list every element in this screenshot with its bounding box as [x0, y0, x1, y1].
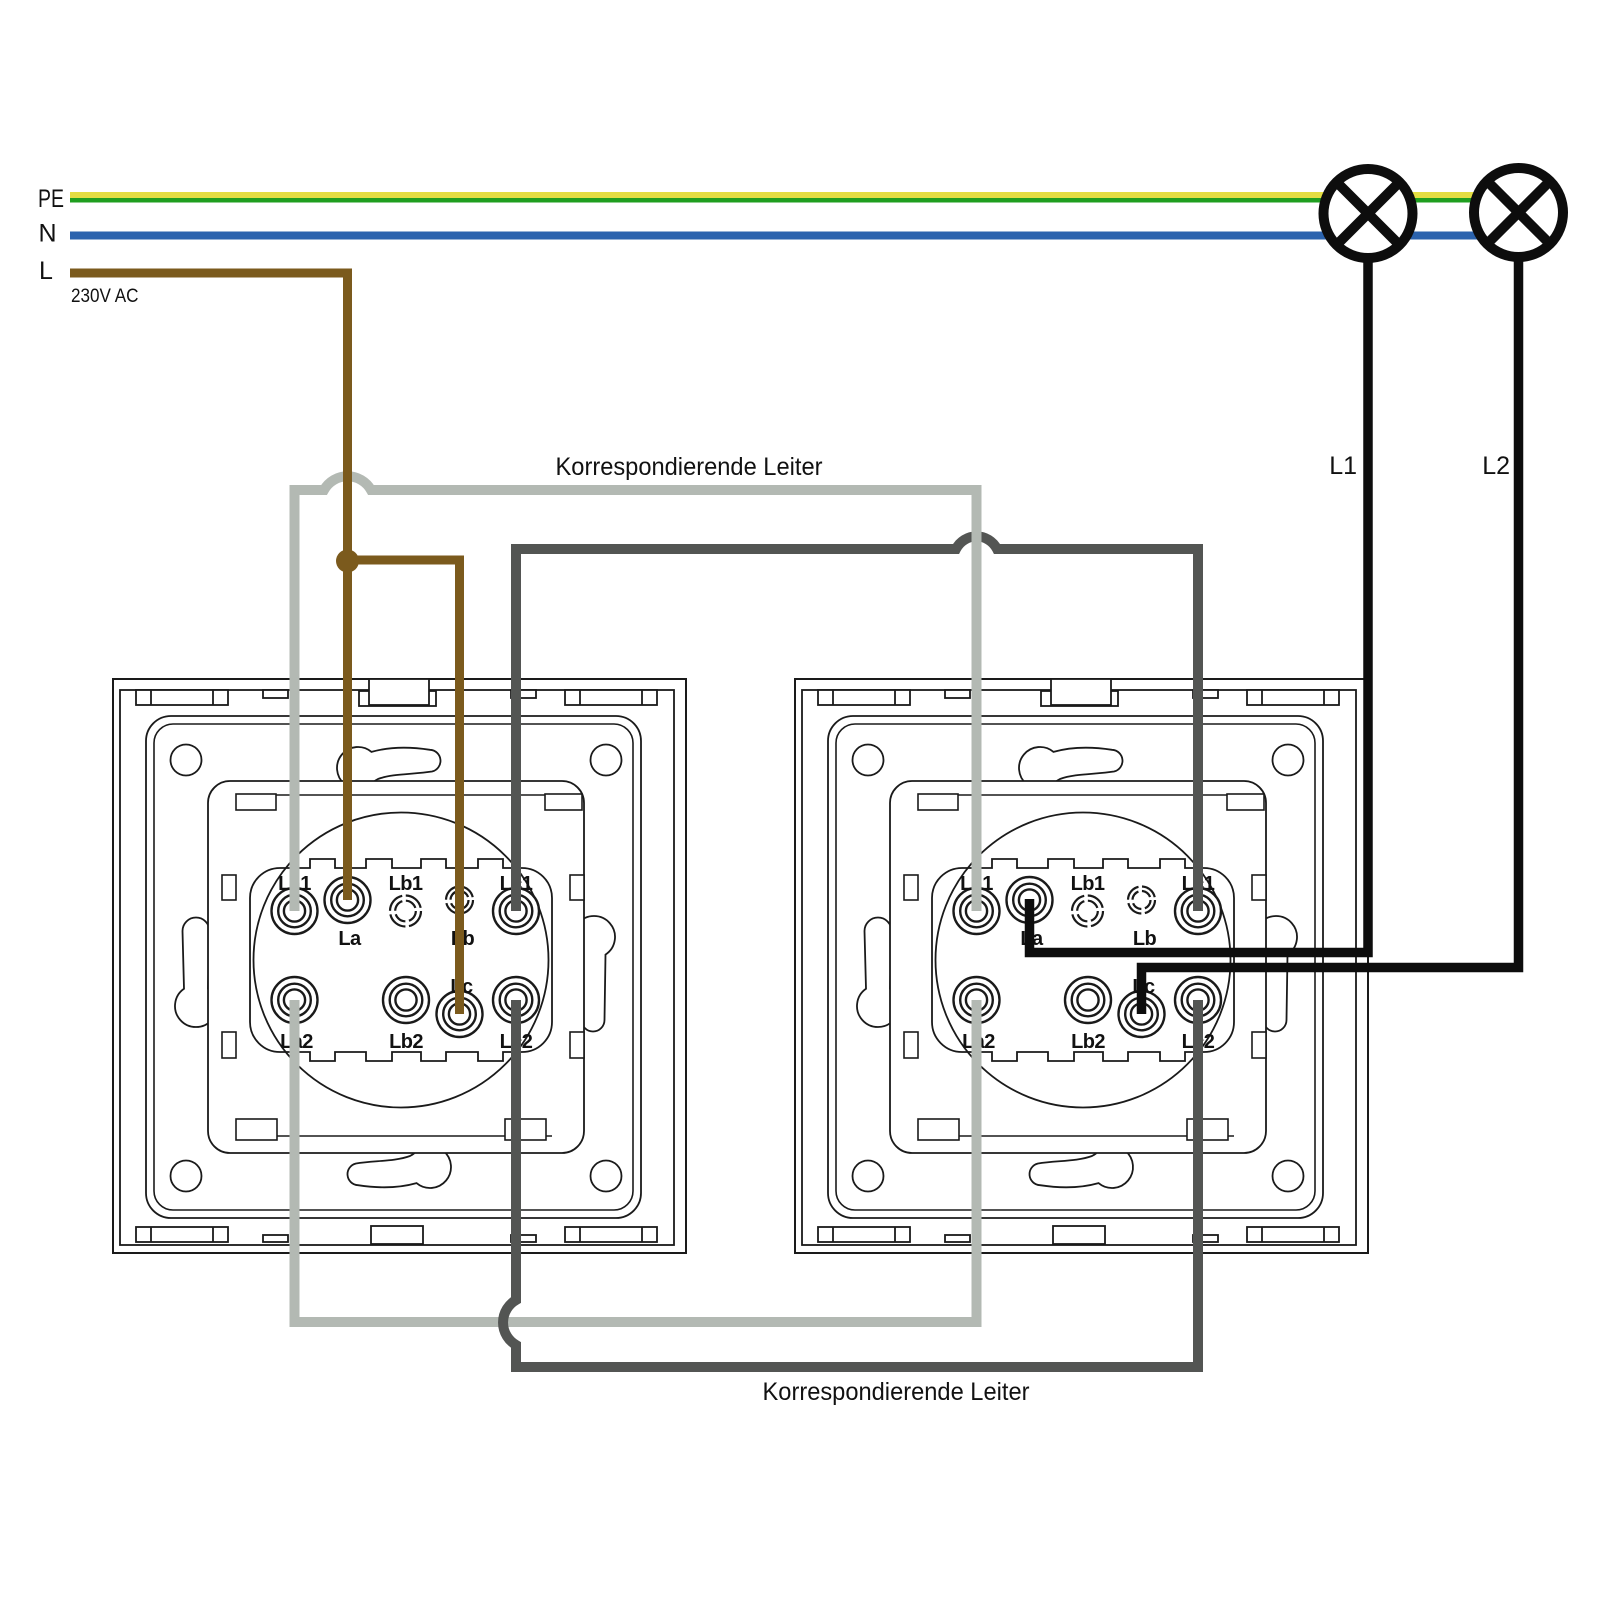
svg-text:230V AC: 230V AC [71, 286, 139, 307]
switch S2 [795, 679, 1368, 1253]
traveller wire A light gray top [295, 476, 977, 911]
junction dot L [336, 550, 359, 573]
traveller wire A light gray bottom [295, 1000, 977, 1322]
svg-text:L: L [39, 257, 53, 285]
traveller wire B dark gray bottom [503, 1000, 1198, 1367]
wire lamp E1 lead black [1030, 260, 1369, 953]
svg-text:Korrespondierende Leiter: Korrespondierende Leiter [763, 1378, 1030, 1406]
svg-text:L2: L2 [1482, 452, 1510, 480]
lamp E1 [1324, 169, 1413, 258]
wire L branch brown [348, 560, 460, 1014]
N conductor [70, 232, 1520, 240]
traveller wire B dark gray top [516, 536, 1198, 911]
switch S1 [113, 679, 686, 1253]
wire L feed brown [70, 273, 348, 900]
PE conductor green stripe [70, 198, 1520, 203]
svg-text:Korrespondierende Leiter: Korrespondierende Leiter [556, 453, 823, 481]
svg-text:PE: PE [38, 185, 64, 213]
svg-text:N: N [39, 220, 57, 248]
svg-text:L1: L1 [1329, 452, 1357, 480]
wire lamp E2 lead black [1142, 260, 1519, 1014]
PE conductor yellow stripe [70, 192, 1520, 198]
lamp E2 [1474, 168, 1563, 257]
